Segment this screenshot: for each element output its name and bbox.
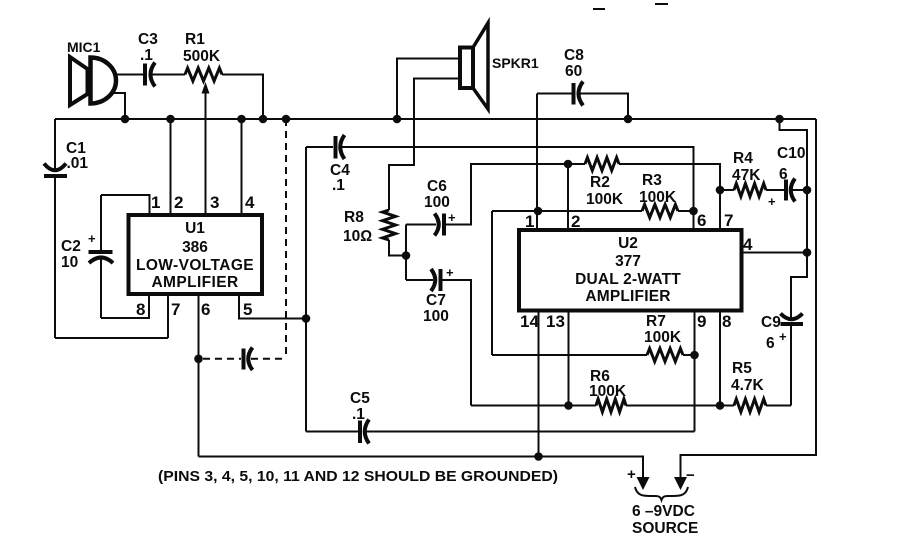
svg-text:−: − <box>686 467 695 484</box>
svg-text:C3: C3 <box>138 31 158 48</box>
resistor R4 <box>732 150 766 197</box>
wire C7 right segment down to R6 line <box>443 280 472 406</box>
svg-text:4: 4 <box>245 193 255 212</box>
svg-text:+: + <box>627 466 636 483</box>
resistor R8 <box>343 209 396 245</box>
wire C2 branch vertical upper <box>100 195 102 250</box>
svg-text:100: 100 <box>423 308 449 325</box>
svg-text:3: 3 <box>210 193 219 212</box>
svg-text:C10: C10 <box>777 145 805 162</box>
wire U2 pin9 down to feedback line <box>694 312 696 432</box>
wire x492 vertical R3-left to R7-left <box>491 211 493 355</box>
svg-text:5: 5 <box>243 300 252 319</box>
capacitor C2 <box>61 231 113 271</box>
svg-text:R2: R2 <box>590 174 610 191</box>
battery plus arrow <box>627 466 650 490</box>
svg-text:MIC1: MIC1 <box>67 39 101 55</box>
resistor R6 <box>589 368 627 412</box>
battery brace <box>635 487 688 500</box>
resistor R5 <box>731 360 766 412</box>
wire R6 to R5 segment <box>626 405 734 407</box>
wire R1 wiper to U1 pin3 <box>202 82 210 213</box>
node pin8-R6 junction <box>716 401 725 410</box>
wire R5 right corner up to C9 <box>766 405 791 407</box>
wire U1 pin4 from bus <box>241 119 243 213</box>
wire R1 right end down to bus <box>222 75 263 120</box>
wire C4 line right long segment to U2 pin6 corner <box>341 147 694 228</box>
svg-text:R1: R1 <box>185 31 205 48</box>
svg-text:U1: U1 <box>185 220 205 237</box>
wire U1 pin5 to x306 vertical <box>239 296 306 319</box>
capacitor optional on dashed link <box>244 348 253 371</box>
wire dashed vertical from bus <box>285 119 287 359</box>
node bus-R1 junction <box>259 115 268 124</box>
svg-text:R4: R4 <box>733 150 753 167</box>
capacitor C8 <box>564 47 584 106</box>
svg-text:.1: .1 <box>332 177 345 194</box>
wire C6 right segment up to R2 line <box>446 164 568 225</box>
wire R8 bottom to junction <box>389 240 406 256</box>
svg-text:6 –9VDC: 6 –9VDC <box>632 503 695 520</box>
svg-text:6: 6 <box>201 300 210 319</box>
wire feedback line right segment <box>365 431 695 433</box>
svg-text:6: 6 <box>766 335 775 352</box>
capacitor C3 <box>138 31 158 87</box>
wire U2 pin4 to right vertical <box>742 252 807 254</box>
resistor R2 <box>585 158 624 209</box>
wire R4 to C10 <box>766 189 784 191</box>
node bus-pin2 junction <box>166 115 175 124</box>
svg-text:C8: C8 <box>564 47 584 64</box>
amplifier U2 377 dual 2-watt <box>519 230 742 311</box>
battery minus arrow <box>674 467 695 490</box>
wire R3 line pin1 to pin6 <box>492 210 642 212</box>
svg-text:+: + <box>446 265 454 280</box>
svg-text:C5: C5 <box>350 390 370 407</box>
svg-text:+: + <box>779 329 787 344</box>
svg-text:.01: .01 <box>67 155 89 172</box>
resistor R7 <box>644 313 683 362</box>
wire C9 bottom to R5 right corner <box>790 326 792 406</box>
svg-text:6: 6 <box>779 166 788 183</box>
node bus-pin4 junction <box>237 115 246 124</box>
svg-text:386: 386 <box>182 239 208 256</box>
resistor R1 potentiometer <box>183 31 222 81</box>
capacitor C7 <box>423 265 454 325</box>
svg-text:2: 2 <box>571 212 580 231</box>
node C10 right junction <box>803 186 812 195</box>
wire U1 pin7 stub <box>167 296 169 338</box>
svg-text:100K: 100K <box>644 329 682 346</box>
node bus-speaker junction <box>393 115 402 124</box>
svg-text:14: 14 <box>520 312 539 331</box>
svg-text:9: 9 <box>697 312 706 331</box>
wire V+ bus top rail <box>55 118 816 120</box>
svg-text:1: 1 <box>525 212 534 231</box>
wire C7 left segment <box>406 279 433 281</box>
svg-text:+: + <box>768 194 776 209</box>
node U1 pin5 junction <box>302 314 311 323</box>
svg-text:100K: 100K <box>586 191 624 208</box>
svg-text:500K: 500K <box>183 48 221 65</box>
svg-text:100: 100 <box>424 194 450 211</box>
node R8-C6-C7 junction <box>402 251 411 260</box>
wire C2 branch vertical lower <box>100 257 102 318</box>
svg-text:R8: R8 <box>344 209 364 226</box>
wire C10 right to inner vertical <box>791 189 807 191</box>
svg-text:377: 377 <box>615 253 641 270</box>
wire C6 left segment <box>406 224 436 226</box>
svg-text:AMPLIFIER: AMPLIFIER <box>585 288 670 305</box>
svg-text:AMPLIFIER: AMPLIFIER <box>151 274 238 291</box>
capacitor C6 <box>424 178 456 236</box>
svg-text:R7: R7 <box>646 313 666 330</box>
wire x306 long vertical <box>305 147 307 432</box>
svg-text:10: 10 <box>61 254 78 271</box>
wire C4 line left segment <box>306 146 333 148</box>
svg-text:DUAL 2-WATT: DUAL 2-WATT <box>575 271 681 288</box>
wire C6/C7 branch vertical <box>405 225 407 281</box>
svg-text:2: 2 <box>174 193 183 212</box>
svg-text:4: 4 <box>743 235 753 254</box>
svg-text:100K: 100K <box>639 189 677 206</box>
wire C8 left vertical down to U2 pin1 <box>536 94 538 229</box>
svg-text:7: 7 <box>171 300 180 319</box>
wire C8 line left segment <box>537 93 572 95</box>
wire R6 line left segment <box>471 405 596 407</box>
wire U1 pin1 bent stub <box>101 195 150 213</box>
wire outer right vertical to minus terminal <box>681 119 817 479</box>
label battery source <box>632 503 698 537</box>
svg-text:+: + <box>88 231 96 246</box>
svg-text:R3: R3 <box>642 172 662 189</box>
node bus-C8 junction <box>624 115 633 124</box>
capacitor C1 <box>44 140 88 176</box>
svg-text:C6: C6 <box>427 178 447 195</box>
svg-text:(PINS 3, 4, 5, 10, 11 AND 12 S: (PINS 3, 4, 5, 10, 11 AND 12 SHOULD BE G… <box>158 468 558 485</box>
node bus-mic junction <box>121 115 130 124</box>
wire R7 right to pin9 vertical <box>683 354 695 356</box>
wire U2 pin14 down to ground rail <box>538 312 540 457</box>
node pin14-ground junction <box>534 452 543 461</box>
op-amp U1 386 low-voltage amplifier <box>129 215 263 294</box>
wire U2 pin8 down to R6 line <box>719 312 721 406</box>
svg-text:7: 7 <box>724 211 733 230</box>
wire R4 from pin7 node <box>720 189 734 191</box>
wire bottom-left horizontal to U1 pin7 <box>55 337 168 339</box>
wire speaker terminal 2 down to R8 <box>389 79 460 211</box>
svg-text:.1: .1 <box>140 47 153 64</box>
svg-text:+: + <box>448 210 456 225</box>
svg-text:LOW-VOLTAGE: LOW-VOLTAGE <box>136 257 254 274</box>
wire C8 right segment down to bus <box>579 94 629 120</box>
wire MIC1 output to C3 <box>113 74 143 76</box>
svg-text:R5: R5 <box>732 360 752 377</box>
wire feedback line pin9 left segment <box>306 431 358 433</box>
wire U2 pin13 down to R6 line <box>568 312 570 406</box>
stray scan mark 2 <box>655 3 668 5</box>
svg-text:8: 8 <box>136 300 145 319</box>
capacitor C10 <box>768 145 805 209</box>
wire dashed horizontal right part <box>251 358 286 360</box>
svg-text:SOURCE: SOURCE <box>632 520 698 537</box>
wire inner vertical with top jog to bus <box>780 119 808 318</box>
wire U1 pin6 down to ground rail <box>198 296 200 457</box>
svg-text:8: 8 <box>722 312 731 331</box>
microphone MIC1 <box>67 39 116 105</box>
svg-text:C7: C7 <box>426 292 446 309</box>
wire R7 line left segment <box>492 354 647 356</box>
node pin4 junction <box>803 248 812 257</box>
wire R3 right to pin6 vertical <box>678 210 694 212</box>
wire speaker terminal 1 to bus <box>397 59 460 120</box>
wire U1 pin8 stub <box>101 296 149 318</box>
svg-text:6: 6 <box>697 211 706 230</box>
svg-text:1: 1 <box>151 193 160 212</box>
speaker SPKR1 <box>460 23 539 109</box>
capacitor C5 <box>350 390 370 444</box>
node R2-C6-pin2 junction <box>564 160 573 169</box>
wire R2 right corner down to U2 pin7 <box>619 164 720 228</box>
svg-text:47K: 47K <box>732 167 761 184</box>
stray scan mark 1 <box>593 8 605 10</box>
node pin6-R3 junction <box>689 207 698 216</box>
wire left vertical below C1 <box>54 177 56 338</box>
node bus-dashed junction <box>282 115 291 124</box>
svg-text:4.7K: 4.7K <box>731 377 765 394</box>
node pin9-R7 junction <box>690 351 699 360</box>
wire dashed horizontal left part <box>203 358 241 360</box>
capacitor C9 <box>761 314 803 353</box>
node U1 pin6 dashed junction <box>194 355 203 364</box>
svg-text:.1: .1 <box>352 406 365 423</box>
node bus-right jog junction <box>775 115 784 124</box>
wire left vertical above C1 <box>54 119 56 170</box>
wire U2 pin2 vertical <box>567 164 569 228</box>
svg-text:U2: U2 <box>618 235 638 252</box>
svg-text:C2: C2 <box>61 238 81 255</box>
wire R2 line from pin2 node <box>568 163 585 165</box>
svg-text:100K: 100K <box>589 383 627 400</box>
svg-text:13: 13 <box>546 312 565 331</box>
wire ground rail to plus terminal <box>199 457 644 480</box>
resistor R3 <box>639 172 678 218</box>
wire U1 pin2 from bus <box>170 119 172 213</box>
svg-text:10Ω: 10Ω <box>343 228 372 245</box>
capacitor C4 <box>330 135 350 194</box>
node pin13-R6 junction <box>564 401 573 410</box>
svg-text:60: 60 <box>565 63 582 80</box>
node R2-R4-pin7 junction <box>716 186 725 195</box>
wire MIC1 lower terminal down to bus <box>110 93 125 119</box>
wire C3 to R1 <box>150 74 185 76</box>
node pin1-C8 junction <box>534 207 543 216</box>
svg-text:SPKR1: SPKR1 <box>492 55 539 71</box>
